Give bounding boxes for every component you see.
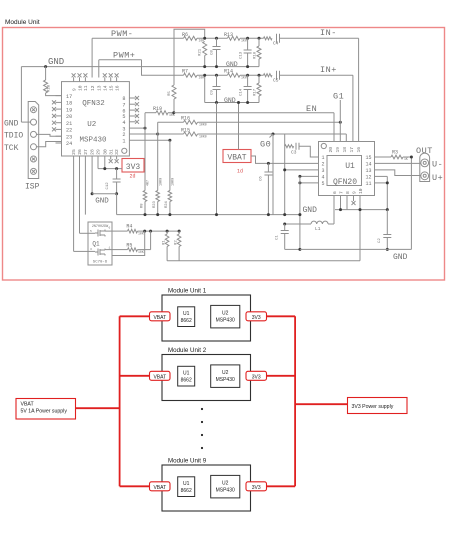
svg-text:R16: R16 (181, 116, 190, 122)
svg-text:10: 10 (358, 188, 364, 194)
svg-text:C14: C14 (240, 88, 244, 96)
svg-text:VBAT: VBAT (153, 485, 166, 491)
svg-text:9: 9 (71, 88, 77, 91)
svg-text:26: 26 (77, 149, 83, 155)
svg-text:C6: C6 (260, 176, 264, 181)
svg-text:VBAT: VBAT (153, 315, 166, 321)
svg-text:U2: U2 (222, 310, 229, 316)
svg-text:MSP430: MSP430 (216, 377, 235, 383)
svg-text:R15: R15 (181, 128, 190, 134)
svg-text:4: 4 (322, 175, 325, 181)
svg-text:10K0: 10K0 (199, 135, 207, 139)
svg-text:22: 22 (66, 128, 72, 134)
svg-text:10K: 10K (199, 76, 205, 80)
svg-text:12: 12 (90, 85, 96, 91)
svg-text:27: 27 (83, 149, 89, 155)
svg-text:12: 12 (365, 175, 371, 181)
svg-text:C13: C13 (240, 51, 244, 59)
svg-text:5V 1A Power supply: 5V 1A Power supply (21, 409, 68, 415)
svg-text:1K0: 1K0 (241, 76, 247, 80)
svg-text:C9: C9 (211, 90, 215, 95)
svg-text:U1: U1 (183, 370, 190, 376)
svg-text:29: 29 (96, 149, 102, 155)
svg-text:C12: C12 (106, 182, 110, 190)
svg-text:U-: U- (432, 160, 443, 170)
svg-text:R23: R23 (153, 200, 157, 208)
svg-text:1K: 1K (404, 157, 408, 161)
svg-text:R18: R18 (48, 84, 52, 92)
svg-text:VBAT: VBAT (153, 374, 166, 380)
svg-text:3: 3 (90, 248, 92, 251)
svg-text:3V3: 3V3 (252, 315, 261, 321)
svg-text:R8: R8 (140, 203, 144, 208)
svg-text:16: 16 (114, 85, 120, 91)
svg-text:R21: R21 (199, 48, 203, 56)
svg-text:QFN32: QFN32 (82, 100, 105, 108)
svg-text:R19: R19 (153, 106, 162, 112)
svg-text:C4: C4 (273, 41, 279, 47)
svg-text:R17: R17 (254, 88, 258, 96)
svg-text:31: 31 (108, 149, 114, 155)
svg-text:MSP430: MSP430 (216, 317, 235, 323)
svg-text:8: 8 (122, 96, 125, 102)
svg-text:1: 1 (109, 247, 111, 250)
svg-text:23: 23 (66, 134, 72, 140)
svg-text:U1: U1 (183, 311, 190, 317)
svg-text:6: 6 (109, 227, 111, 230)
svg-text:8662: 8662 (181, 377, 192, 383)
svg-text:U1: U1 (345, 162, 355, 171)
svg-text:ISP: ISP (25, 183, 40, 192)
svg-text:C2: C2 (378, 238, 382, 243)
svg-text:11: 11 (83, 85, 89, 91)
svg-text:13: 13 (97, 85, 103, 91)
svg-text:20: 20 (328, 147, 334, 153)
svg-text:10K: 10K (138, 231, 144, 235)
svg-text:18: 18 (66, 101, 72, 107)
svg-text:14: 14 (365, 162, 371, 168)
svg-text:Module Unit 9: Module Unit 9 (168, 458, 207, 465)
svg-text:GND: GND (48, 57, 64, 67)
svg-text:3V3: 3V3 (252, 374, 261, 380)
svg-text:13: 13 (365, 168, 371, 174)
svg-text:GND: GND (95, 197, 109, 205)
svg-text:C3: C3 (291, 150, 297, 156)
svg-text:GND: GND (226, 61, 238, 68)
svg-text:7: 7 (338, 191, 344, 194)
svg-text:GND: GND (303, 206, 318, 215)
svg-text:17: 17 (66, 94, 72, 100)
svg-text:16: 16 (356, 147, 362, 153)
svg-text:8: 8 (345, 191, 351, 194)
svg-text:Module Unit: Module Unit (5, 19, 40, 26)
svg-text:11: 11 (365, 181, 371, 187)
svg-text:10K0: 10K0 (172, 178, 176, 186)
svg-text:1K0: 1K0 (241, 39, 247, 43)
svg-text:GND: GND (4, 119, 19, 128)
svg-text:OUT: OUT (416, 146, 433, 156)
svg-text:19: 19 (66, 107, 72, 113)
svg-text:10K: 10K (138, 250, 144, 254)
svg-text:G0: G0 (260, 140, 271, 150)
svg-text:U+: U+ (432, 173, 443, 183)
svg-text:3V3 Power supply: 3V3 Power supply (352, 404, 394, 410)
svg-text:TCK: TCK (4, 144, 19, 153)
svg-text:4: 4 (122, 120, 125, 126)
svg-text:19: 19 (335, 147, 341, 153)
svg-text:R6: R6 (182, 32, 188, 38)
svg-text:32: 32 (114, 149, 120, 155)
svg-text:5: 5 (90, 230, 92, 233)
svg-text:28: 28 (90, 149, 96, 155)
svg-text:R2: R2 (174, 240, 178, 245)
svg-text:R5: R5 (168, 91, 172, 96)
svg-text:C8: C8 (211, 50, 215, 55)
svg-text:R7: R7 (182, 69, 188, 75)
svg-text:30: 30 (102, 149, 108, 155)
svg-text:14: 14 (103, 85, 109, 91)
svg-text:3: 3 (322, 168, 325, 174)
svg-text:3V3: 3V3 (126, 163, 141, 172)
svg-text:IN-: IN- (320, 28, 337, 38)
svg-text:R3: R3 (392, 150, 398, 156)
svg-text:6: 6 (332, 191, 338, 194)
svg-text:20: 20 (66, 114, 72, 120)
svg-text:5: 5 (322, 181, 325, 187)
svg-text:GND: GND (393, 253, 408, 262)
svg-text:U2: U2 (222, 370, 229, 376)
svg-text:1: 1 (122, 139, 125, 145)
svg-text:R4: R4 (126, 224, 132, 230)
svg-text:1d: 1d (237, 168, 243, 174)
svg-text:U2: U2 (222, 480, 229, 486)
svg-text:TDIO: TDIO (4, 132, 23, 141)
svg-text:10K0: 10K0 (159, 178, 163, 186)
svg-text:SC70-6: SC70-6 (93, 261, 108, 265)
svg-text:IN+: IN+ (320, 65, 337, 75)
svg-text:MSP430: MSP430 (79, 136, 107, 144)
svg-text:8662: 8662 (181, 318, 192, 324)
svg-text:10K0: 10K0 (199, 123, 207, 127)
svg-text:Module Unit 1: Module Unit 1 (168, 288, 207, 295)
svg-text:1: 1 (322, 155, 325, 161)
svg-text:U2: U2 (87, 121, 96, 129)
svg-text:3V3: 3V3 (252, 485, 261, 491)
svg-text:15: 15 (109, 85, 115, 91)
svg-text:R24: R24 (165, 200, 169, 208)
svg-text:8662: 8662 (181, 488, 192, 494)
svg-text:2: 2 (122, 132, 125, 138)
svg-text:EN: EN (306, 104, 317, 114)
svg-text:21: 21 (66, 121, 72, 127)
svg-text:PWM+: PWM+ (113, 51, 135, 61)
svg-text:15: 15 (365, 155, 371, 161)
svg-text:R10: R10 (254, 51, 258, 59)
svg-text:18: 18 (342, 147, 348, 153)
svg-text:L1: L1 (315, 226, 321, 232)
svg-text:C1: C1 (276, 235, 280, 240)
svg-text:Q1: Q1 (92, 241, 100, 248)
svg-text:10: 10 (77, 85, 83, 91)
svg-text:R5: R5 (126, 243, 132, 249)
svg-text:U1: U1 (183, 481, 190, 487)
svg-text:MSP430: MSP430 (216, 487, 235, 493)
svg-text:R1: R1 (162, 240, 166, 245)
svg-text:2N7002DW: 2N7002DW (92, 225, 109, 229)
svg-text:VBAT: VBAT (227, 154, 246, 163)
svg-text:4K7: 4K7 (147, 180, 151, 186)
svg-text:25: 25 (71, 149, 77, 155)
svg-text:PWM-: PWM- (111, 29, 133, 39)
svg-text:2: 2 (322, 162, 325, 168)
svg-text:17: 17 (349, 147, 355, 153)
svg-text:VBAT: VBAT (21, 402, 35, 408)
svg-text:C5: C5 (273, 78, 279, 84)
svg-text:2d: 2d (130, 174, 136, 180)
svg-text:Module Unit 2: Module Unit 2 (168, 347, 207, 354)
svg-text:QFN20: QFN20 (333, 178, 357, 187)
svg-text:G1: G1 (333, 92, 344, 102)
svg-text:9: 9 (351, 191, 357, 194)
svg-text:24: 24 (66, 141, 72, 147)
